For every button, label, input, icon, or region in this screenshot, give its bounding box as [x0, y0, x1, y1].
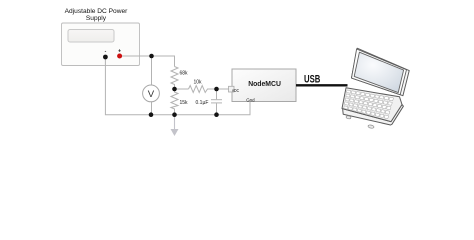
svg-text:NodeMCU: NodeMCU — [248, 79, 281, 88]
svg-text:USB: USB — [304, 74, 320, 86]
svg-text:Supply: Supply — [86, 15, 107, 22]
svg-text:15k: 15k — [180, 100, 189, 106]
svg-text:+: + — [118, 48, 121, 54]
svg-text:ADC: ADC — [232, 88, 240, 94]
svg-text:Gnd: Gnd — [246, 98, 255, 104]
svg-text:10k: 10k — [194, 80, 203, 86]
svg-text:Adjustable DC Power: Adjustable DC Power — [65, 8, 128, 15]
svg-text:0.1µF: 0.1µF — [196, 100, 209, 106]
svg-text:68k: 68k — [180, 71, 189, 77]
svg-text:V: V — [148, 89, 155, 100]
